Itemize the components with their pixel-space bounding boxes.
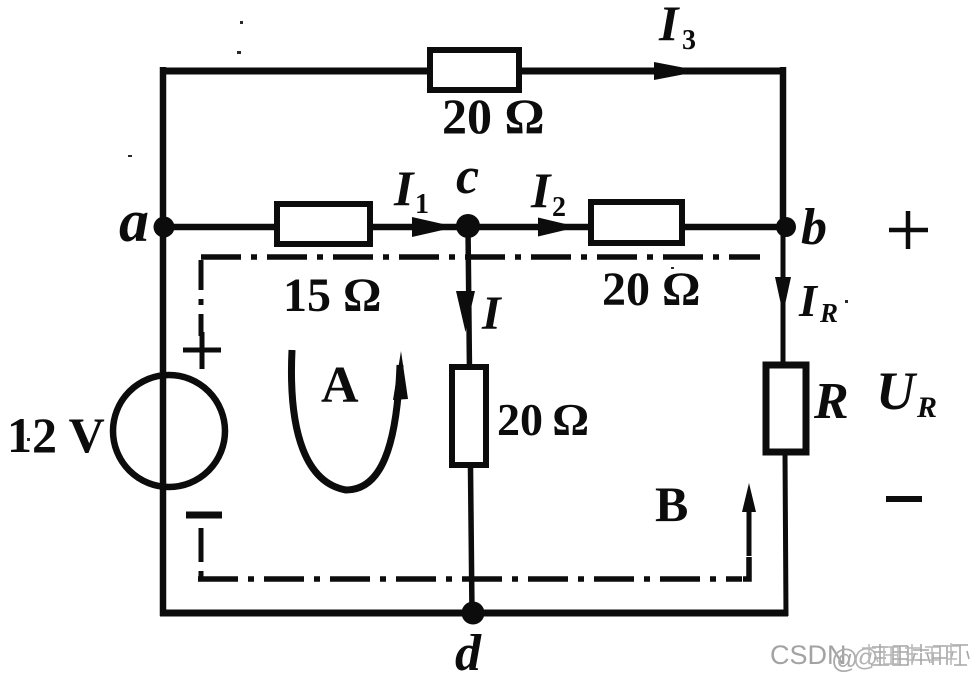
loop A arrowhead bbox=[393, 351, 408, 400]
wire: middle horizontal a-to-b bbox=[163, 224, 786, 231]
svg-text:A: A bbox=[321, 357, 359, 414]
svg-text:1: 1 bbox=[415, 189, 429, 220]
svg-text:I: I bbox=[798, 275, 819, 326]
dash-dot loop boundary: left vertical lower bbox=[199, 528, 204, 581]
svg-text:R: R bbox=[819, 298, 838, 328]
wire: top horizontal (right part) bbox=[516, 68, 786, 75]
svg-text:B: B bbox=[655, 476, 688, 532]
svg-text:3: 3 bbox=[682, 25, 696, 56]
arrow I1 on middle wire bbox=[412, 217, 456, 237]
svg-text:U: U bbox=[876, 361, 918, 421]
loop B arrow shaft bbox=[747, 505, 752, 556]
svg-text:d: d bbox=[455, 625, 482, 675]
loop B arrowhead bbox=[742, 483, 756, 512]
svg-text:I: I bbox=[393, 160, 415, 216]
source polarity minus bbox=[186, 512, 222, 519]
svg-text:c: c bbox=[456, 148, 479, 205]
dash-dot loop boundary: top horizontal bbox=[201, 254, 760, 260]
svg-text:I: I bbox=[481, 287, 503, 340]
scan noise specks bbox=[27, 21, 848, 441]
wire: right vertical (top, I3 to node b) bbox=[780, 67, 787, 230]
svg-text:b: b bbox=[801, 199, 827, 256]
svg-text:20 Ω: 20 Ω bbox=[497, 394, 589, 445]
voltage source circle (12 V) bbox=[113, 375, 225, 487]
polarity plus for UR bbox=[889, 211, 928, 249]
arrow I2 on middle wire bbox=[538, 218, 578, 237]
resistor 15 ohm bbox=[277, 204, 370, 244]
node d bbox=[462, 602, 485, 625]
loop A curved arrow bbox=[291, 350, 400, 490]
svg-text:20 Ω: 20 Ω bbox=[442, 88, 545, 144]
arrow I3 on top wire bbox=[654, 62, 701, 80]
dash-dot loop boundary: bottom horizontal bbox=[198, 576, 742, 582]
node c bbox=[456, 214, 480, 238]
wire: top horizontal (left part) bbox=[160, 68, 433, 75]
svg-text:I: I bbox=[658, 0, 680, 51]
source polarity plus bbox=[183, 332, 221, 369]
svg-text:I: I bbox=[530, 162, 552, 218]
node b bbox=[776, 217, 796, 237]
svg-text:R: R bbox=[813, 373, 849, 430]
polarity minus for UR bbox=[886, 496, 922, 502]
svg-text:20 Ω: 20 Ω bbox=[602, 263, 700, 316]
node a bbox=[154, 217, 175, 238]
svg-text:a: a bbox=[119, 188, 149, 254]
wire: center branch c-to-d bbox=[468, 227, 472, 613]
wire: right vertical (resistor R to bottom) bbox=[785, 452, 786, 616]
resistor 20 ohm (center vertical branch) bbox=[452, 367, 486, 465]
watermark: overlapping CJK ghost layer bbox=[860, 643, 959, 665]
svg-text:2: 2 bbox=[552, 192, 566, 223]
wire: left vertical (a-branch with 12V source) bbox=[160, 67, 167, 616]
wire: bottom horizontal bbox=[160, 610, 788, 617]
arrow I on center branch bbox=[456, 291, 475, 332]
svg-text:12 V: 12 V bbox=[7, 407, 105, 463]
svg-text:R: R bbox=[916, 391, 937, 424]
resistor R (right branch) bbox=[766, 365, 806, 452]
dash-dot loop boundary: left vertical upper bbox=[199, 260, 204, 336]
svg-text:15 Ω: 15 Ω bbox=[283, 269, 381, 322]
dash-dot loop boundary: bottom-right corner piece bbox=[743, 557, 749, 579]
resistor 20 ohm (top) bbox=[430, 50, 519, 90]
arrow IR on right branch bbox=[775, 277, 791, 314]
watermark: CJK glyph squiggles bbox=[871, 644, 969, 665]
wire: right vertical (node b to resistor R) bbox=[781, 227, 786, 367]
resistor 20 ohm (middle right) bbox=[591, 202, 682, 243]
